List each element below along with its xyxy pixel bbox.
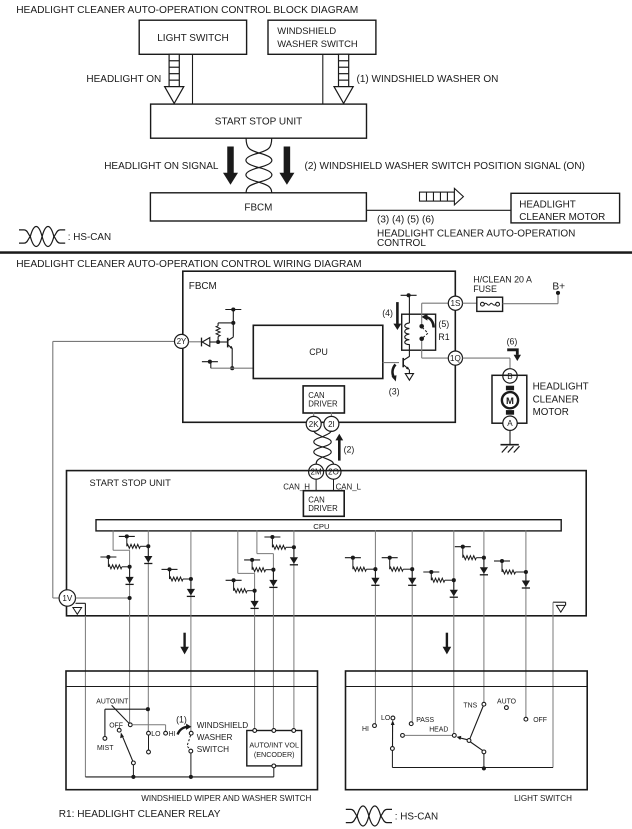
pull-up stub (cell D) xyxy=(264,535,280,547)
svg-text:HEADLIGHT CLEANER AUTO-OPERATI: HEADLIGHT CLEANER AUTO-OPERATION CONTROL… xyxy=(16,5,358,16)
legend: HS-CAN twisted pair symbol (top) xyxy=(19,227,111,247)
motor brush (lower) xyxy=(506,410,514,415)
svg-text:2O: 2O xyxy=(328,468,339,477)
contact: TNS xyxy=(482,702,486,706)
diode (cell C) xyxy=(187,579,195,596)
svg-text:AUTO/INT VOL: AUTO/INT VOL xyxy=(249,741,299,750)
relay R1 contact (lower) xyxy=(419,337,424,342)
label: (3) (4) (5) (6) xyxy=(377,215,434,226)
svg-text:WINDSHIELD WIPER AND WASHER SW: WINDSHIELD WIPER AND WASHER SWITCH xyxy=(141,794,311,803)
node: base junction xyxy=(216,340,220,344)
wire: input line W2 (light sw PASS feed) xyxy=(411,530,413,722)
contact: light arm lower xyxy=(482,750,486,754)
svg-text:R1: HEADLIGHT CLEANER RELAY: R1: HEADLIGHT CLEANER RELAY xyxy=(59,809,221,820)
node: junction (cell C) xyxy=(189,577,193,581)
svg-text:CAN: CAN xyxy=(308,495,324,504)
label: (1) WINDSHIELD WASHER ON xyxy=(357,74,499,85)
switch arm: TNS to pivot xyxy=(470,706,483,739)
node: light switch common junction xyxy=(482,766,486,770)
inner line (light box) xyxy=(346,686,588,688)
svg-text:WINDSHIELD: WINDSHIELD xyxy=(197,721,248,730)
connector pin 1V xyxy=(59,590,75,606)
svg-text:HEADLIGHT ON: HEADLIGHT ON xyxy=(86,74,161,85)
wire: connector to wiper switch common xyxy=(84,616,86,777)
motor M1 (headlight cleaner) xyxy=(502,392,518,408)
signal arrow: washer switch position signal (thick, down) xyxy=(279,147,294,185)
diode (cell F) xyxy=(251,591,259,609)
diode (cell A) xyxy=(144,546,152,563)
resistor (cell W1) xyxy=(353,567,376,571)
wire: input line W3 (light sw HEAD feed) xyxy=(453,530,455,733)
wire: input line A (wiper LO/HI feed) xyxy=(147,530,149,616)
switch arm: dimmer (points at LO) xyxy=(391,720,395,746)
svg-text:LO: LO xyxy=(151,731,161,738)
twisted pair: HS-CAN between start stop unit and FBCM xyxy=(246,138,272,193)
box: CAN DRIVER (start stop unit) xyxy=(303,491,344,517)
svg-text:(ENCODER): (ENCODER) xyxy=(254,750,295,759)
diode (cell W5) xyxy=(522,572,530,588)
box: CPU (FBCM) xyxy=(253,325,382,378)
node: washer common junction xyxy=(189,775,193,779)
motor brush (upper) xyxy=(506,386,514,391)
wire: motor A to ground xyxy=(509,430,511,444)
node: junction on line A xyxy=(146,707,150,711)
wire: input line D (encoder feed 3) xyxy=(293,530,295,729)
label: LO (light) xyxy=(381,715,391,722)
switch arm: pivot to lower contact xyxy=(471,742,483,751)
page connector (bottom left of unit) xyxy=(73,603,86,616)
svg-text:R1: R1 xyxy=(438,332,449,342)
wire: connector to light switch common xyxy=(552,602,554,767)
ground (motor, chassis) xyxy=(501,445,520,453)
label: OFF xyxy=(109,723,123,730)
wire: left rail down to 1V xyxy=(53,341,59,598)
diode D1 (input) xyxy=(202,338,217,347)
svg-text:2M: 2M xyxy=(311,468,322,477)
label: (2) WINDSHIELD WASHER SWITCH POSITION SIGNAL (ON) xyxy=(305,161,585,172)
wire: MIST branch xyxy=(105,709,148,736)
page connector (bottom right of unit) xyxy=(553,602,566,612)
svg-text:TNS: TNS xyxy=(463,703,477,710)
power stub (lower) xyxy=(202,360,218,369)
label: WINDSHIELD WASHER SWITCH xyxy=(197,721,248,754)
signal arrow (4): thick down xyxy=(393,302,401,330)
svg-text:START STOP UNIT: START STOP UNIT xyxy=(215,117,302,128)
wire: dimmer arm to common xyxy=(391,750,393,767)
connector pin 2O xyxy=(326,464,341,479)
svg-text:2K: 2K xyxy=(309,420,319,429)
contact: OFF (light) xyxy=(524,717,528,721)
pull-up stub (cell W3) xyxy=(423,570,439,580)
relay R1 coil xyxy=(405,323,410,357)
label: AUTO/INT xyxy=(96,698,129,705)
signal arrow: windshield washer on (hatched, down) xyxy=(334,54,353,103)
svg-text:1Q: 1Q xyxy=(450,354,461,363)
svg-text:HEADLIGHT CLEANER AUTO-OPERATI: HEADLIGHT CLEANER AUTO-OPERATION CONTROL… xyxy=(16,259,361,270)
resistor (cell C) xyxy=(170,577,191,581)
transistor Q1 (input buffer) xyxy=(218,323,233,368)
diode (cell D) xyxy=(290,547,298,565)
wire: encoder common to bus xyxy=(273,768,275,777)
svg-text:FBCM: FBCM xyxy=(189,281,217,292)
svg-text:B: B xyxy=(507,372,512,381)
label: LIGHT SWITCH (caption) xyxy=(514,794,572,803)
label: HI xyxy=(169,731,176,738)
wire: 2Y to left rail xyxy=(53,340,175,342)
label: (6) xyxy=(507,336,518,346)
wire: washer lower to common xyxy=(190,753,192,777)
legend: HS-CAN twisted pair symbol (bottom) xyxy=(346,806,438,826)
transistor Q2 (relay driver) xyxy=(403,356,409,370)
wire: wiper arm to common xyxy=(132,765,134,777)
contact: LO (light) xyxy=(391,716,395,720)
node: junction (cell W5) xyxy=(524,570,528,574)
label: AUTO xyxy=(497,699,517,706)
wire: washer switch to start stop unit xyxy=(322,54,324,104)
signal arrow: headlight on (hatched, down) xyxy=(165,54,184,103)
svg-text:: HS-CAN: : HS-CAN xyxy=(395,812,438,823)
contact: HI (light) xyxy=(373,724,377,728)
wire: CPU to output transistor base xyxy=(383,362,399,364)
wire: Q2 emitter to ground xyxy=(408,369,410,373)
ground (FBCM output) xyxy=(405,374,413,381)
contact: encoder pin 3 xyxy=(292,729,296,733)
contact: HI xyxy=(164,731,168,735)
wire: input line W5 (light sw OFF feed) xyxy=(525,530,527,717)
inner line (wiper box) xyxy=(66,686,318,688)
svg-text:(3) (4) (5) (6): (3) (4) (5) (6) xyxy=(377,215,434,226)
block: HEADLIGHT CLEANER MOTOR xyxy=(511,193,620,223)
contact: MIST xyxy=(103,737,107,741)
relay R1 movable arm (dashed) xyxy=(422,328,428,339)
svg-text:CPU: CPU xyxy=(313,522,329,531)
svg-text:AUTO/INT: AUTO/INT xyxy=(96,698,129,705)
contact: LO arm lower xyxy=(147,750,151,754)
wire: wiper switch common bus xyxy=(85,776,273,778)
pull-up stub (cell A) xyxy=(119,534,135,546)
contact: washer switch upper xyxy=(189,731,193,735)
contact: washer switch lower xyxy=(189,749,193,753)
pull-up stub (cell C) xyxy=(162,567,178,579)
connector pin 2Y xyxy=(175,334,189,348)
contact: OFF xyxy=(117,728,121,732)
wire: fuse to B+ xyxy=(503,293,558,304)
svg-text:HI: HI xyxy=(362,726,369,733)
svg-text:DRIVER: DRIVER xyxy=(308,399,338,408)
wire: input line E (encoder feed 2) xyxy=(257,530,274,729)
svg-text:LIGHT SWITCH: LIGHT SWITCH xyxy=(157,33,228,44)
contact: wiper arm lower xyxy=(132,761,136,765)
wire: 2M to CAN driver xyxy=(315,479,317,491)
wire: 2O to CAN driver xyxy=(333,479,335,491)
power stub (relay feed) xyxy=(401,293,417,323)
svg-text:(3): (3) xyxy=(389,387,400,397)
resistor R-pullup (vertical) xyxy=(216,323,233,342)
box: light switch xyxy=(346,671,588,790)
box: windshield wiper and washer switch xyxy=(66,671,318,790)
svg-text:(4): (4) xyxy=(382,308,393,318)
resistor (cell W3) xyxy=(431,578,454,582)
svg-text:HEADLIGHT: HEADLIGHT xyxy=(533,382,589,393)
wire: 1S to fuse xyxy=(463,302,477,304)
svg-text:MIST: MIST xyxy=(97,745,114,752)
node: wiper arm common junction xyxy=(131,775,135,779)
resistor (cell W5) xyxy=(502,570,526,574)
node: emitter junction xyxy=(230,366,234,370)
contact: AUTO/INT xyxy=(128,723,132,727)
contact: HEAD xyxy=(452,734,456,738)
contact: encoder pin 2 xyxy=(272,729,276,733)
node: junction (cell F) xyxy=(253,589,257,593)
wire: input line B (wiper AUTO/INT feed) xyxy=(113,530,130,616)
svg-text:OFF: OFF xyxy=(533,717,547,724)
contact: AUTO xyxy=(505,706,509,710)
label: PASS xyxy=(416,717,434,724)
wire: CAN driver to 2K xyxy=(313,412,315,417)
block: FBCM xyxy=(150,193,366,221)
contact: PASS xyxy=(409,722,413,726)
node: junction (cell W4) xyxy=(482,556,486,560)
svg-text:AUTO: AUTO xyxy=(497,699,517,706)
box: AUTO/INT VOL (ENCODER) xyxy=(247,731,302,766)
svg-text:CLEANER: CLEANER xyxy=(533,395,579,406)
wire: input line W1 (light sw HI feed) xyxy=(374,530,376,724)
resistor (cell W2) xyxy=(390,567,413,571)
svg-text:(1) WINDSHIELD WASHER ON: (1) WINDSHIELD WASHER ON xyxy=(357,74,499,85)
diode (cell W3) xyxy=(450,580,458,597)
box: headlight cleaner motor xyxy=(492,375,527,423)
svg-text:: HS-CAN: : HS-CAN xyxy=(68,232,111,243)
svg-text:MOTOR: MOTOR xyxy=(533,407,569,418)
diode (cell E) xyxy=(269,570,277,588)
pull-up stub (cell W5) xyxy=(494,559,510,572)
connector pin 1Q xyxy=(448,351,462,365)
label: HEADLIGHT CLEANER AUTO-OPERATION CONTROL xyxy=(377,228,575,249)
svg-text:2Y: 2Y xyxy=(177,337,187,346)
diode (cell W2) xyxy=(408,569,416,585)
node: junction (cell A) xyxy=(146,544,150,548)
label: HEADLIGHT ON xyxy=(86,74,161,85)
box: CAN DRIVER (FBCM) xyxy=(303,386,344,413)
label: LO xyxy=(151,731,161,738)
label: H/CLEAN 20 A FUSE xyxy=(473,275,532,294)
wire: light switch common bus xyxy=(392,767,553,769)
label: (1) washer xyxy=(176,715,187,725)
signal arrow: light switch operate (thick down) xyxy=(443,633,452,655)
diode (cell B) xyxy=(126,567,134,585)
signal arrow (2): thick up xyxy=(335,434,343,461)
resistor (cell E) xyxy=(252,568,273,572)
wire: 2Y to diode D1 xyxy=(189,341,202,343)
box: START STOP UNIT xyxy=(67,471,587,616)
svg-text:WINDSHIELD: WINDSHIELD xyxy=(277,25,336,36)
node: junction (cell D) xyxy=(292,545,296,549)
wire: input line C (washer switch feed) xyxy=(190,530,192,731)
svg-text:(6): (6) xyxy=(507,336,518,346)
block: WINDSHIELD WASHER SWITCH xyxy=(268,20,376,54)
node: junction (cell W2) xyxy=(410,567,414,571)
svg-text:HI: HI xyxy=(169,731,176,738)
switch arm: washer (dashed) xyxy=(187,735,191,749)
svg-text:(1): (1) xyxy=(176,715,187,725)
node: 1V junction on line B xyxy=(128,596,132,600)
label: OFF (light) xyxy=(533,717,547,724)
label: HI (light) xyxy=(362,726,369,733)
block: LIGHT SWITCH xyxy=(139,20,246,54)
resistor (cell W4) xyxy=(463,556,484,560)
wire: input line W4 (light sw TNS feed) xyxy=(483,530,485,702)
svg-text:HEADLIGHT: HEADLIGHT xyxy=(519,199,576,210)
switch arm: wiper (points at OFF) xyxy=(120,732,133,761)
svg-text:CONTROL: CONTROL xyxy=(377,238,426,249)
contact: dimmer arm lower xyxy=(391,747,395,751)
wire: 1V to diode line B xyxy=(76,597,130,599)
wire: 1Q to motor B xyxy=(463,358,511,368)
node: junction (cell E) xyxy=(271,568,275,572)
box: CPU bar (start stop unit) xyxy=(96,520,561,531)
wire: head feed line xyxy=(404,734,452,736)
svg-text:FBCM: FBCM xyxy=(244,203,272,214)
signal arrow (5): curved over relay contact xyxy=(422,313,434,327)
signal arrow: wiper switch operate (thick down) xyxy=(180,633,189,655)
wire: light switch to start stop unit xyxy=(192,54,194,104)
wire: FBCM to headlight cleaner motor xyxy=(366,209,511,211)
connector pin 2I xyxy=(324,416,339,431)
svg-text:PASS: PASS xyxy=(416,717,434,724)
wire: CAN driver to 2I xyxy=(330,412,332,417)
node: junction (cell B) xyxy=(128,565,132,569)
label: HEADLIGHT ON SIGNAL xyxy=(104,161,219,172)
svg-text:CPU: CPU xyxy=(309,347,328,357)
wire: light arm to common xyxy=(483,754,485,769)
resistor (cell F) xyxy=(234,589,255,593)
diode (cell W1) xyxy=(371,569,379,585)
pull-up stub (cell E) xyxy=(244,558,260,570)
wire: input line F (encoder feed 1) xyxy=(238,530,255,729)
contact: encoder common xyxy=(272,764,276,768)
label: CAN_H xyxy=(283,483,310,492)
svg-text:WASHER SWITCH: WASHER SWITCH xyxy=(277,38,357,49)
svg-text:LO: LO xyxy=(381,715,391,722)
label: (2) xyxy=(344,444,355,454)
svg-text:FUSE: FUSE xyxy=(473,284,497,294)
svg-text:(2) WINDSHIELD WASHER SWITCH P: (2) WINDSHIELD WASHER SWITCH POSITION SI… xyxy=(305,161,585,172)
contact: encoder pin 1 xyxy=(253,729,257,733)
motor terminal A xyxy=(503,416,517,430)
signal arrow: headlight cleaner auto-operation (hatched, right) xyxy=(420,188,464,205)
wire: AUTO/INT to HI xyxy=(132,725,165,732)
label: R1 xyxy=(438,332,449,342)
signal arrow (3): thick curved xyxy=(392,365,397,382)
fuse H/CLEAN 20A xyxy=(477,297,503,311)
node: B+ terminal xyxy=(556,291,560,295)
box: FBCM xyxy=(183,271,456,422)
node: collector rail junction xyxy=(231,321,235,325)
node: junction (cell W1) xyxy=(373,567,377,571)
pull-up stub (cell F) xyxy=(226,578,242,590)
label: (4) xyxy=(382,308,393,318)
switch arm: pivot to HEAD (arrow) xyxy=(457,736,468,740)
svg-text:DRIVER: DRIVER xyxy=(308,504,338,513)
svg-text:2I: 2I xyxy=(328,420,335,429)
label: R1 legend xyxy=(59,809,221,820)
signal arrow: headlight on signal (thick, down) xyxy=(223,147,238,185)
svg-text:1S: 1S xyxy=(450,299,461,308)
svg-text:(2): (2) xyxy=(344,444,355,454)
signal arrow: washer operate (curved) xyxy=(178,724,192,735)
svg-text:(5): (5) xyxy=(438,319,449,329)
divider line xyxy=(0,251,632,254)
connector pin 2M xyxy=(309,464,324,479)
motor terminal B xyxy=(503,369,517,383)
label: (3) xyxy=(389,387,400,397)
pull-up stub (cell W1) xyxy=(345,556,361,570)
wire: input line A lower part xyxy=(147,616,149,732)
svg-text:HEADLIGHT ON SIGNAL: HEADLIGHT ON SIGNAL xyxy=(104,161,219,172)
label: HEADLIGHT CLEANER MOTOR xyxy=(533,382,589,419)
pull-up stub (cell B) xyxy=(100,555,116,567)
contact: light switch pivot xyxy=(467,739,471,743)
relay R1 contact (upper) xyxy=(419,324,424,329)
wire: relay lower contact to 1Q xyxy=(422,341,449,358)
svg-text:HEAD: HEAD xyxy=(429,726,448,733)
svg-text:START STOP UNIT: START STOP UNIT xyxy=(90,478,172,488)
contact: head feed xyxy=(401,734,405,738)
label: (5) xyxy=(438,319,449,329)
resistor (cell B) xyxy=(108,565,129,569)
power stub (FBCM input) xyxy=(225,307,241,322)
signal arrow (6): thick bent xyxy=(507,350,521,361)
svg-text:SWITCH: SWITCH xyxy=(197,745,229,754)
pull-up stub (cell W2) xyxy=(382,556,398,570)
switch arm: AUTO/INT xyxy=(112,705,129,723)
svg-text:WASHER: WASHER xyxy=(197,733,233,742)
svg-text:LIGHT SWITCH: LIGHT SWITCH xyxy=(514,794,572,803)
label: HEAD xyxy=(429,726,448,733)
label: CAN_L xyxy=(336,483,362,492)
label: B+ xyxy=(552,281,565,292)
resistor (cell A) xyxy=(127,544,149,548)
wire: input line B lower part xyxy=(129,616,131,723)
label: WINDSHIELD WIPER AND WASHER SWITCH (caption) xyxy=(141,794,311,803)
svg-text:1V: 1V xyxy=(62,594,73,603)
block: START STOP UNIT xyxy=(151,104,367,138)
contact: LO xyxy=(147,731,151,735)
wire: emitter line to CPU xyxy=(211,367,253,369)
pull-up stub (cell W4) xyxy=(455,545,471,558)
svg-text:CLEANER MOTOR: CLEANER MOTOR xyxy=(519,212,605,223)
svg-text:M: M xyxy=(506,396,514,407)
svg-text:B+: B+ xyxy=(552,281,565,292)
diode (cell W4) xyxy=(480,558,488,575)
wire: 1S to relay upper contact xyxy=(422,303,449,324)
label: MIST xyxy=(97,745,114,752)
twisted pair: CAN bus FBCM to start stop unit xyxy=(314,431,334,465)
label: TNS xyxy=(463,703,477,710)
resistor (cell D) xyxy=(272,545,294,549)
svg-text:A: A xyxy=(507,419,513,428)
title: wiring diagram heading xyxy=(16,259,361,270)
title: block diagram heading xyxy=(16,5,358,16)
wire: LO to lower contact xyxy=(148,735,150,750)
relay R1 box xyxy=(402,314,436,350)
node: junction (cell W3) xyxy=(452,578,456,582)
connector pin 2K xyxy=(306,416,321,431)
connector pin 1S xyxy=(448,296,462,310)
